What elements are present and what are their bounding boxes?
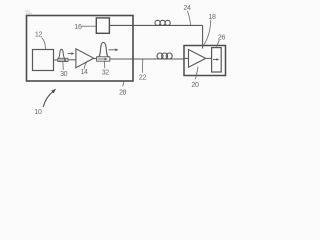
svg-text:18: 18 [208, 14, 216, 21]
svg-text:10: 10 [34, 109, 42, 116]
svg-text:32: 32 [102, 70, 110, 77]
svg-text:26: 26 [218, 35, 226, 42]
svg-text:28: 28 [119, 90, 127, 97]
svg-text:24: 24 [183, 5, 191, 12]
svg-text:14: 14 [80, 69, 88, 76]
svg-text:30: 30 [60, 71, 68, 78]
svg-text:12: 12 [35, 32, 43, 39]
svg-text:22: 22 [139, 74, 147, 81]
svg-text:16: 16 [74, 24, 82, 31]
svg-text:20: 20 [191, 82, 199, 89]
